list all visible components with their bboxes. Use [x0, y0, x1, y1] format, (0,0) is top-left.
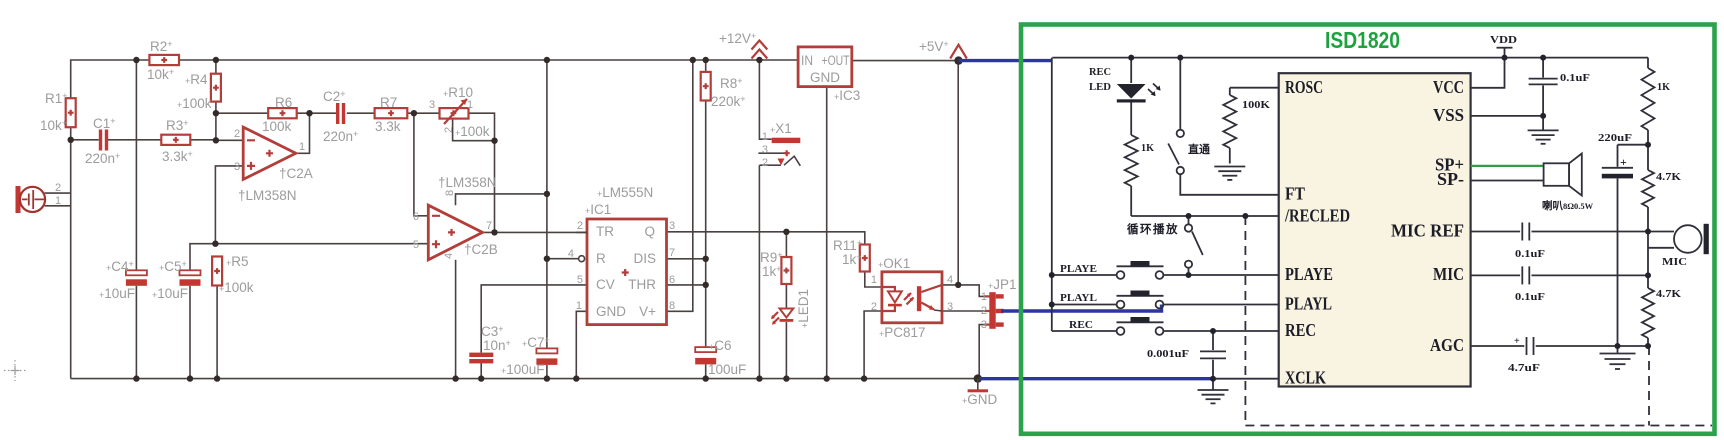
capacitor 0.1uF (MIC REF) — [1471, 223, 1674, 261]
wire: IC3 GND down to rail — [826, 87, 828, 379]
regulator IC3 — [798, 47, 860, 103]
capacitor C5 — [152, 259, 201, 301]
wire: /RECLED row — [1131, 215, 1279, 217]
wire: VSS row — [1471, 115, 1544, 117]
svg-text:MIC: MIC — [1662, 257, 1687, 268]
svg-text:0.1uF: 0.1uF — [1515, 249, 1545, 260]
wire: C1 row R1 node to R3 — [71, 139, 216, 141]
svg-text:†LM358N: †LM358N — [438, 175, 497, 190]
optocoupler OK1 PC817 — [871, 256, 953, 340]
wire: C4 bias vertical — [135, 60, 137, 379]
svg-text:0.1uF: 0.1uF — [1515, 292, 1545, 303]
wire: IC2B output to 555 TR — [483, 231, 588, 233]
svg-text:THR: THR — [628, 277, 656, 292]
resistor 100K (ROSC) — [1223, 88, 1271, 164]
wire: R6/C2/R7 row — [216, 112, 440, 114]
wire: OK1 pin4 to +5V and JP1 pin1 — [942, 61, 985, 297]
wire: JP1 pin3 to GND node — [979, 325, 984, 379]
svg-text:Q: Q — [644, 224, 655, 239]
capacitor C7 — [501, 335, 557, 377]
wire: ground bottom rail — [71, 378, 978, 380]
svg-text:PLAYL: PLAYL — [1285, 294, 1332, 314]
svg-text:REC: REC — [1285, 320, 1316, 340]
svg-text:R7: R7 — [380, 95, 397, 110]
microphone MIC (module) — [1662, 224, 1709, 268]
svg-text:0.1uF: 0.1uF — [1560, 73, 1590, 84]
switch 循环播放 — [1126, 216, 1203, 275]
svg-text:220n+: 220n+ — [85, 151, 120, 166]
wire: IC2B pin8 to +12 branch — [456, 194, 547, 205]
svg-text:†C2B: †C2B — [464, 242, 498, 257]
resistor R7 — [375, 95, 408, 134]
svg-text:+12V+: +12V+ — [719, 31, 756, 46]
svg-text:2: 2 — [762, 157, 768, 169]
svg-text:2: 2 — [871, 301, 877, 313]
svg-text:1K: 1K — [1657, 82, 1671, 93]
pushbutton PLAYL — [1052, 291, 1279, 309]
wire: switch1 branch to FT — [1180, 58, 1278, 195]
LED LED1 — [771, 289, 811, 328]
svg-text:1: 1 — [981, 291, 987, 303]
REC LED symbol — [1089, 67, 1161, 103]
svg-text:220uF: 220uF — [1598, 133, 1632, 144]
wire: GND blue wire to XCLK — [979, 377, 1213, 380]
ground (AGC row) — [1600, 346, 1636, 369]
resistor 4.7K lower — [1642, 275, 1682, 346]
svg-text:喇叭8Ω0.5W: 喇叭8Ω0.5W — [1542, 199, 1594, 212]
resistor 4.7K upper — [1642, 145, 1682, 232]
svg-text:+OUT: +OUT — [822, 53, 850, 68]
svg-text:+GND: +GND — [962, 392, 998, 407]
ground GND symbol — [962, 379, 998, 407]
module junction dots — [1049, 55, 1651, 382]
wire: IC2A pin3 route from R5 node — [215, 166, 243, 244]
svg-text:5: 5 — [577, 274, 583, 286]
wire: R8/C6 vertical — [705, 60, 707, 379]
pushbutton REC — [1052, 317, 1279, 335]
wire: OK1 pin3 to JP1 pin2 — [942, 310, 985, 312]
svg-text:+: + — [1514, 336, 1520, 347]
wire: 555 Q output row — [667, 232, 865, 245]
wire: ROSC row — [1230, 87, 1279, 89]
svg-text:100k: 100k — [262, 119, 292, 134]
wire: left vertical rail below R1 down to bottom rail — [70, 127, 72, 378]
wire: 555 CV to C3 — [481, 285, 587, 379]
timer IC1 LM555N — [568, 185, 675, 325]
svg-text:PLAYL: PLAYL — [1060, 293, 1097, 304]
speaker + SP wires — [1471, 154, 1594, 213]
wire: vref row C5/R5 to IC2B pin5 — [190, 244, 428, 271]
svg-text:+R10: +R10 — [443, 85, 473, 100]
capacitor 0.001uF — [1147, 331, 1226, 379]
resistor R1 — [40, 91, 76, 133]
potentiometer R10 — [429, 85, 490, 139]
power VDD symbol — [1490, 35, 1517, 58]
IC box ISD1820 chip — [1279, 73, 1471, 387]
resistor R8 — [701, 72, 746, 109]
svg-text:+: + — [1620, 155, 1627, 169]
capacitor C1 — [85, 116, 120, 166]
svg-text:IN: IN — [801, 53, 813, 68]
green border box — [1021, 25, 1715, 434]
svg-text:循环播放: 循环播放 — [1126, 222, 1179, 236]
svg-text:+10uF: +10uF — [99, 286, 135, 301]
svg-text:TR: TR — [596, 224, 614, 239]
wire: C5 bottom stub — [189, 286, 191, 379]
resistor R4 — [177, 72, 221, 111]
svg-text:+OK1: +OK1 — [878, 256, 910, 271]
svg-text:†C2A: †C2A — [279, 166, 313, 181]
wire: X1 pin3 stub — [758, 152, 787, 154]
svg-text:+LM555N: +LM555N — [597, 185, 653, 200]
capacitor 0.1uF (MIC) — [1471, 266, 1648, 303]
wire: top rail R2 to IC3 IN — [179, 59, 798, 61]
+12V power symbol — [719, 31, 767, 59]
svg-text:REC: REC — [1089, 67, 1111, 78]
op-amp IC2A — [234, 127, 313, 203]
wire: 555 THR stub — [667, 284, 706, 286]
svg-text:5: 5 — [413, 239, 419, 251]
audio jack X1 — [762, 121, 800, 169]
wire: IC3 OUT to +5V node — [852, 60, 959, 62]
svg-text:3: 3 — [762, 144, 768, 156]
svg-text:1: 1 — [467, 99, 473, 111]
wire: +5V rail inside module — [1052, 57, 1648, 59]
svg-text:0.001uF: 0.001uF — [1147, 349, 1189, 360]
wire: R10 wiper tie — [453, 120, 495, 141]
svg-text:+100uF: +100uF — [501, 362, 545, 377]
svg-text:LED: LED — [1089, 82, 1111, 93]
svg-text:VCC: VCC — [1433, 77, 1464, 97]
+5V power symbol — [919, 39, 967, 59]
wire: mic pin 1 stub — [45, 205, 71, 207]
svg-text:MIC REF: MIC REF — [1391, 221, 1464, 241]
svg-text:3: 3 — [234, 161, 240, 173]
svg-text:3: 3 — [947, 301, 953, 313]
wire: IC2B pin4 down to ground rail — [455, 260, 457, 379]
wire: R9 branch and LED1 — [785, 232, 787, 379]
capacitor 4.7uF (AGC) — [1471, 336, 1648, 374]
svg-text:1: 1 — [299, 141, 305, 153]
svg-text:+100k: +100k — [219, 280, 254, 295]
ground under 100K — [1214, 167, 1245, 180]
wire: JP1 pin2 blue wire to PLAYL — [1001, 305, 1162, 312]
wire: IC2A output feedback up to R6 row — [296, 113, 310, 153]
ground under VSS — [1528, 116, 1559, 144]
wire: R10 pin6 vertical to IC2B pin 6 — [414, 113, 428, 216]
wire: 555 GND pin down — [576, 311, 587, 378]
svg-text:/RECLED: /RECLED — [1284, 206, 1350, 226]
svg-text:1: 1 — [762, 131, 768, 143]
wire: +12V vertical x=547 to C7 — [546, 60, 548, 379]
capacitor 220uF — [1598, 133, 1648, 346]
resistor R6 — [262, 95, 297, 134]
svg-text:+LED1: +LED1 — [796, 289, 811, 328]
resistor R5 — [212, 254, 254, 295]
svg-text:4: 4 — [947, 274, 953, 286]
wire: +12V top rail left of R2 (mic bias node) — [71, 60, 150, 98]
svg-text:3: 3 — [429, 99, 435, 111]
svg-text:+100k: +100k — [455, 124, 490, 139]
svg-text:4: 4 — [568, 248, 574, 260]
svg-text:VDD: VDD — [1490, 35, 1517, 46]
wire: R10 pin1 down to IC2B output — [469, 113, 495, 232]
op-amp IC2B — [413, 175, 498, 260]
svg-text:+10uF: +10uF — [152, 286, 188, 301]
switch 直通 — [1168, 130, 1210, 175]
wire: mic pin 2 stub — [45, 192, 71, 194]
connector JP1 — [981, 277, 1017, 331]
svg-text:3.3k: 3.3k — [375, 119, 401, 134]
capacitor C2 — [323, 89, 358, 144]
svg-text:1K: 1K — [1141, 143, 1155, 154]
svg-text:AGC: AGC — [1430, 335, 1464, 355]
svg-text:2: 2 — [443, 127, 455, 133]
svg-text:直通: 直通 — [1188, 142, 1210, 156]
svg-text:PLAYE: PLAYE — [1285, 264, 1333, 284]
svg-text:+PC817: +PC817 — [879, 325, 926, 340]
capacitor C3 — [469, 324, 510, 363]
svg-text:V+: V+ — [639, 304, 656, 319]
resistor 1K (module right) — [1642, 58, 1671, 145]
svg-text:4.7K: 4.7K — [1656, 172, 1682, 183]
capacitor C6 — [695, 338, 746, 377]
wire: +5V blue wire to module — [959, 59, 1053, 62]
svg-text:R6: R6 — [275, 95, 292, 110]
origin crosshair — [4, 360, 26, 381]
svg-text:6: 6 — [669, 274, 675, 286]
dashed module boundary — [1245, 216, 1712, 426]
resistor R3 — [161, 118, 192, 164]
wire: 555 DIS stub — [667, 258, 706, 260]
capacitor C4 — [99, 259, 147, 301]
svg-text:1: 1 — [55, 195, 61, 207]
svg-text:8: 8 — [444, 190, 456, 196]
svg-text:ROSC: ROSC — [1285, 77, 1323, 97]
svg-text:ISD1820: ISD1820 — [1325, 27, 1400, 53]
ground under XCLK — [1198, 379, 1229, 404]
svg-text:4.7K: 4.7K — [1656, 289, 1682, 300]
svg-text:FT: FT — [1285, 184, 1305, 204]
wire: X1 verticals — [759, 60, 781, 379]
svg-text:+100k: +100k — [177, 96, 212, 111]
resistor 1K (module left) — [1125, 135, 1155, 186]
svg-text:1: 1 — [871, 274, 877, 286]
wire: R4 vertical branch — [215, 60, 217, 140]
svg-text:7: 7 — [486, 220, 492, 232]
wire: OK1 pin2 to ground rail — [864, 311, 882, 379]
svg-text:8: 8 — [669, 300, 675, 312]
wire: R5 bottom stub — [216, 286, 218, 379]
svg-text:3: 3 — [981, 319, 987, 331]
wire: mic vertical join — [1648, 232, 1674, 276]
svg-text:GND: GND — [810, 70, 840, 85]
svg-text:PLAYE: PLAYE — [1060, 264, 1097, 275]
wire: REC LED branch — [1130, 58, 1132, 216]
resistor R2 — [147, 39, 179, 82]
resistor R11 — [833, 238, 870, 272]
svg-text:GND: GND — [596, 304, 626, 319]
resistor R9 — [760, 250, 791, 284]
svg-text:SP-: SP- — [1437, 169, 1464, 189]
svg-text:CV: CV — [596, 277, 615, 292]
wire: 555 V+ pin to +12 rail — [667, 60, 693, 311]
svg-text:220n+: 220n+ — [323, 129, 358, 144]
wire: VCC to VDD rail — [1471, 58, 1505, 88]
wire: R11 bottom to OK1 pin1 — [865, 272, 882, 287]
microphone MIC1 — [16, 182, 62, 213]
wire: XCLK row — [1213, 378, 1279, 380]
wire: 555 R pin to +12 node — [547, 258, 578, 260]
pushbutton PLAYE — [1052, 261, 1279, 279]
svg-text:2: 2 — [577, 220, 583, 232]
wire: IC2A pin2 stub — [216, 139, 243, 141]
wire: left button rail — [1051, 58, 1053, 331]
svg-text:XCLK: XCLK — [1285, 368, 1326, 388]
svg-text:2: 2 — [55, 182, 61, 194]
svg-text:REC: REC — [1069, 320, 1093, 331]
svg-text:2: 2 — [234, 128, 240, 140]
capacitor 0.1uF (VDD) — [1529, 58, 1590, 116]
svg-text:R: R — [596, 251, 606, 266]
svg-text:7: 7 — [669, 247, 675, 259]
svg-text:2: 2 — [981, 305, 987, 317]
svg-text:MIC: MIC — [1433, 264, 1464, 284]
svg-text:VSS: VSS — [1433, 105, 1464, 125]
svg-text:4.7uF: 4.7uF — [1508, 363, 1540, 374]
svg-text:DIS: DIS — [633, 251, 656, 266]
svg-text:1: 1 — [576, 300, 582, 312]
svg-text:100K: 100K — [1242, 100, 1271, 111]
svg-text:6: 6 — [413, 211, 419, 223]
svg-text:3: 3 — [669, 220, 675, 232]
svg-text:100uF: 100uF — [708, 362, 746, 377]
svg-text:4: 4 — [443, 253, 455, 259]
svg-text:†LM358N: †LM358N — [238, 188, 297, 203]
